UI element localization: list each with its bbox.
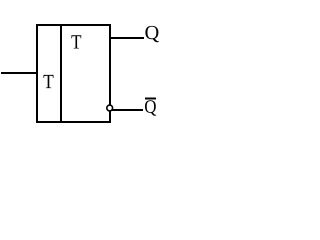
label T (flip-flop type) (71, 35, 81, 48)
wire to output Qbar (112, 109, 143, 111)
input wire T (1, 72, 36, 74)
internal divider line (60, 24, 62, 123)
label T (input column) (43, 75, 53, 88)
label Qbar (inverted output) (145, 100, 156, 116)
wire to output Q (111, 37, 144, 39)
inversion bubble on Qbar output (107, 105, 113, 111)
T flip-flop body (outer rectangle) (37, 25, 110, 122)
label Q (output) (145, 26, 158, 42)
overline of Qbar (145, 98, 156, 100)
